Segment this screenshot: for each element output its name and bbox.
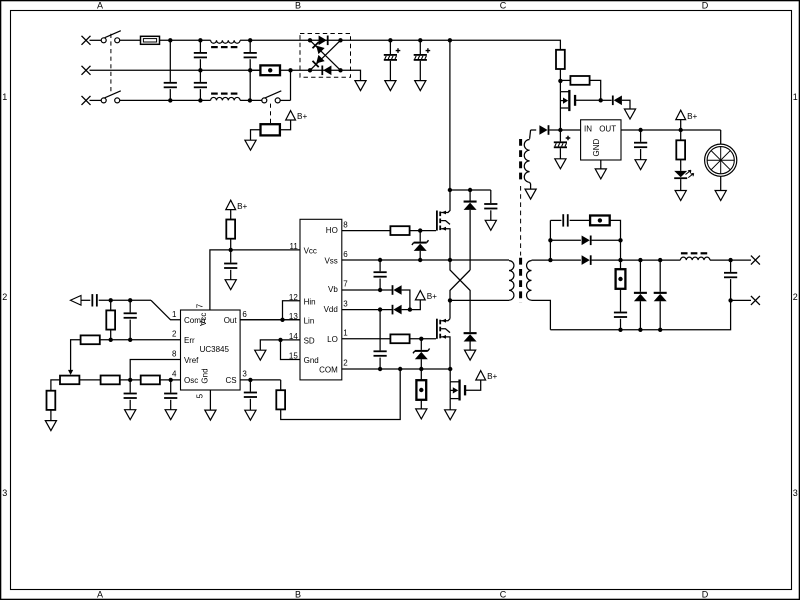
wire — [592, 239, 621, 241]
wire — [620, 319, 622, 330]
ground (C5) — [385, 81, 396, 91]
junction — [448, 188, 452, 192]
terminal X4 (out+) — [751, 256, 760, 265]
svg-text:B+: B+ — [487, 372, 497, 381]
wire — [169, 89, 171, 100]
junction — [618, 238, 622, 242]
svg-text:3: 3 — [793, 488, 798, 498]
svg-text:1: 1 — [343, 329, 348, 338]
protection MOSFET Q4 — [450, 369, 466, 401]
wire — [230, 239, 232, 250]
wire arrow to cap — [81, 299, 90, 301]
wire — [420, 339, 422, 350]
Vcc pin wire — [231, 249, 300, 251]
junction — [548, 238, 552, 242]
supply B+ (Vcc) — [226, 200, 248, 211]
svg-text:Hin: Hin — [304, 297, 316, 306]
wire switch to fuse — [120, 39, 141, 41]
wire — [379, 358, 381, 369]
bulk capacitor C6 — [414, 48, 431, 61]
ground (R7) — [416, 409, 427, 419]
junction — [169, 378, 173, 382]
ground (bridge) — [355, 81, 366, 91]
capacitor CY2 — [194, 82, 207, 88]
ground (LED) — [675, 191, 686, 201]
common-mode choke L1 winding A — [211, 40, 240, 47]
terminal X5 (out-) — [751, 296, 760, 305]
capacitor CY1 — [194, 52, 207, 58]
ground (C21) — [635, 160, 646, 170]
wire C1 to comp node — [99, 299, 151, 301]
svg-text:B+: B+ — [297, 112, 307, 121]
switch-node rail to transformer primary bottom — [450, 299, 509, 301]
svg-text:2: 2 — [793, 292, 798, 302]
svg-text:8: 8 — [172, 350, 177, 359]
svg-text:OUT: OUT — [599, 124, 616, 133]
junction — [278, 338, 282, 342]
svg-text:7: 7 — [343, 279, 348, 288]
wire — [659, 301, 661, 330]
CS sense wire — [281, 369, 401, 420]
U1 pin numbers — [172, 303, 247, 398]
MOSFET Q2 (low side) — [436, 319, 450, 369]
wire — [199, 59, 201, 82]
Out to Lin wire — [240, 319, 300, 321]
wire — [110, 300, 112, 310]
capacitor C10 — [164, 393, 177, 399]
half-bridge top rail — [450, 189, 491, 191]
wire snubber cap drop — [490, 190, 492, 203]
wire — [559, 148, 561, 159]
junction — [448, 367, 452, 371]
supply B+ (relay) — [286, 111, 308, 122]
bridge diode D3 (diagonal) — [312, 41, 325, 54]
snubber row wire — [549, 220, 551, 260]
svg-text:Vdd: Vdd — [324, 305, 338, 314]
output capacitor C14 — [724, 272, 737, 278]
svg-text:C: C — [500, 0, 507, 10]
svg-text:CS: CS — [225, 376, 236, 385]
wire fuse to choke — [160, 39, 211, 41]
wire filter to NTC — [250, 69, 260, 71]
junction — [618, 328, 622, 332]
wire coil left to ground — [251, 130, 261, 140]
svg-text:UC3845: UC3845 — [200, 345, 230, 354]
junction — [658, 328, 662, 332]
junction — [378, 367, 382, 371]
junction — [198, 38, 202, 42]
junction — [198, 68, 202, 72]
junction bridge DC+ — [338, 38, 342, 42]
wire osc cap 2 — [170, 380, 172, 393]
bridge top rail — [310, 39, 341, 41]
bridge diode D1 — [319, 36, 329, 46]
relay contact K1 — [262, 91, 282, 103]
svg-text:6: 6 — [343, 250, 348, 259]
gate zener D6 — [412, 240, 429, 251]
HO gate wire — [342, 230, 391, 232]
pot wiper arrow — [68, 370, 73, 375]
CS pin wire — [240, 379, 281, 381]
wire B+ rail — [641, 129, 721, 131]
svg-text:Out: Out — [224, 316, 238, 325]
ground (fan) — [715, 191, 726, 201]
wire riser x250 lower — [249, 70, 251, 100]
junction — [288, 68, 292, 72]
svg-text:8: 8 — [343, 220, 348, 229]
crossover wire A — [450, 260, 470, 332]
svg-text:A: A — [97, 589, 103, 599]
power LED D22 — [674, 170, 694, 179]
diode row wire — [550, 239, 581, 241]
wire — [420, 369, 422, 380]
svg-text:COM: COM — [319, 365, 338, 374]
junction bridge AC- — [308, 68, 312, 72]
svg-text:LO: LO — [327, 335, 338, 344]
bridge rectifier outline (dashed) — [300, 34, 351, 78]
supply diode D10 — [392, 305, 402, 315]
main output row wire — [550, 259, 581, 261]
wire Vcc cap — [230, 250, 232, 263]
junction — [280, 318, 284, 322]
U2 pin labels — [304, 226, 339, 374]
junction — [558, 79, 562, 83]
common-mode choke L1 winding B — [211, 94, 240, 101]
potentiometer R3 body — [60, 376, 79, 385]
bridge diagonal wire 2 — [311, 41, 340, 69]
svg-text:Vb: Vb — [328, 285, 338, 294]
wire R8 to ground — [50, 410, 52, 421]
junction — [419, 337, 423, 341]
bridge diode D4 (diagonal) — [312, 55, 325, 68]
junction — [398, 367, 402, 371]
junction — [248, 98, 252, 102]
svg-text:5: 5 — [196, 393, 205, 398]
junction — [248, 378, 252, 382]
junction — [418, 258, 422, 262]
svg-text:Lin: Lin — [304, 317, 315, 326]
wire — [620, 240, 622, 260]
wire — [610, 220, 621, 240]
pass transistor Q3 — [560, 81, 576, 130]
junction — [418, 38, 422, 42]
wire R5 to gate — [410, 230, 436, 232]
LO gate wire — [342, 338, 391, 340]
rectifier diode D12 — [582, 255, 592, 265]
MOSFET Q1 (high side) — [436, 190, 450, 260]
wire R21 to gate — [590, 80, 601, 100]
ground (C20) — [555, 159, 566, 169]
junction — [248, 68, 252, 72]
wire — [680, 130, 682, 140]
wire SD to ground — [260, 340, 280, 350]
wire aux to diode — [531, 129, 537, 131]
voltage regulator U3 — [581, 120, 621, 160]
resistor R1 — [106, 310, 115, 329]
junction bridge DC- — [338, 68, 342, 72]
svg-text:7: 7 — [196, 303, 205, 308]
wire diode drop — [469, 190, 471, 201]
secondary top wire — [532, 259, 551, 261]
zener D21 — [612, 96, 622, 106]
wire D10 to node — [402, 309, 410, 311]
resistor R9 — [101, 376, 120, 385]
junction — [618, 258, 622, 262]
ground (C11) — [245, 410, 256, 420]
junction — [128, 338, 132, 342]
junction — [229, 248, 233, 252]
resistor R10 — [141, 376, 160, 385]
ground (SD) — [255, 350, 266, 360]
ground (C7) — [485, 220, 496, 230]
wire D9 to node — [402, 290, 410, 310]
supply B+ (driver) — [415, 291, 437, 302]
relay contact link (dashed) — [270, 104, 272, 124]
junction — [419, 367, 423, 371]
wire pot left — [51, 380, 60, 391]
wire — [680, 179, 682, 190]
current shunt R7 — [416, 380, 426, 400]
wire Vdd-COM cap — [379, 310, 381, 351]
wire shunt drop — [620, 260, 622, 269]
wire node Vaux — [555, 129, 581, 131]
resistor R11 — [276, 390, 285, 409]
ground (C6) — [415, 81, 426, 91]
wire — [199, 89, 201, 100]
snubber resistor R12 — [590, 216, 610, 226]
wire riser x250 upper — [249, 40, 251, 52]
aux winding bottom wire — [530, 182, 531, 189]
wire — [249, 59, 251, 70]
freewheel diode D13 — [634, 292, 647, 301]
power switch S1 pole B — [101, 91, 121, 103]
resistor R21 — [570, 76, 589, 85]
junction — [599, 98, 603, 102]
wire — [419, 251, 421, 260]
wire — [230, 270, 232, 280]
LED resistor R22 — [676, 140, 685, 159]
svg-text:B: B — [295, 589, 301, 599]
svg-text:3: 3 — [242, 370, 247, 379]
ground (aux winding) — [525, 189, 536, 199]
wire osc cap 1 — [129, 380, 131, 393]
wire — [680, 160, 682, 171]
svg-text:Vcc: Vcc — [199, 313, 208, 326]
junction — [408, 307, 412, 311]
wire X2 to filter — [90, 69, 261, 71]
svg-text:D: D — [702, 0, 709, 10]
junction — [248, 38, 252, 42]
wire relay contact to riser — [280, 99, 290, 101]
svg-text:B: B — [295, 0, 301, 10]
ground (U1) — [205, 410, 216, 420]
crossover wire B — [450, 270, 470, 300]
svg-text:3: 3 — [2, 488, 7, 498]
wire node to B+ — [410, 300, 420, 310]
inrush NTC thermistor R0 — [260, 65, 280, 75]
wire riser contact bypass — [290, 70, 292, 100]
wire — [639, 260, 641, 292]
svg-text:6: 6 — [242, 310, 247, 319]
wire — [469, 342, 471, 351]
wire regulator out — [621, 129, 641, 131]
wire — [640, 149, 642, 160]
bridge bottom rail — [310, 69, 341, 71]
capacitor C11 (CS filter) — [244, 392, 257, 398]
svg-text:GND: GND — [592, 139, 601, 157]
svg-text:HO: HO — [326, 226, 338, 235]
svg-text:Gnd: Gnd — [304, 356, 319, 365]
svg-text:2: 2 — [172, 330, 177, 339]
capacitor C1 (feedback) — [91, 294, 97, 306]
wire pot right — [79, 379, 100, 381]
secondary bottom wire — [532, 300, 551, 329]
clamp diode D7 — [464, 332, 477, 341]
svg-text:A: A — [97, 0, 103, 10]
wire — [639, 301, 641, 330]
wire — [559, 130, 561, 141]
wire — [570, 219, 591, 221]
svg-text:B+: B+ — [687, 112, 697, 121]
svg-text:IN: IN — [584, 124, 592, 133]
snubber capacitor C7 — [484, 203, 497, 209]
svg-text:Err: Err — [184, 336, 195, 345]
junction — [128, 378, 132, 382]
wire bridge minus to ground — [341, 70, 361, 80]
svg-text:1: 1 — [172, 310, 177, 319]
wire D20 to node — [549, 129, 555, 131]
ground (relay coil) — [245, 140, 256, 150]
switch S1 gang link (dashed) — [110, 34, 112, 94]
junction — [378, 307, 382, 311]
junction — [448, 298, 452, 302]
Vb pin wire — [342, 289, 392, 291]
wire cap riser x200 upper — [199, 40, 201, 52]
junction — [728, 298, 732, 302]
wire CS to R11 — [280, 380, 282, 390]
ground (C4) — [225, 280, 236, 290]
junction — [448, 258, 452, 262]
wire R20 to node — [559, 69, 561, 81]
svg-text:SD: SD — [304, 336, 315, 345]
freewheel diode D14 — [654, 292, 667, 301]
wire bulk cap 1 drop — [389, 40, 391, 54]
wire — [490, 210, 492, 220]
capacitor C2 — [124, 312, 137, 318]
junction — [638, 258, 642, 262]
wire output cap — [730, 260, 732, 272]
svg-text:B+: B+ — [237, 202, 247, 211]
junction — [638, 328, 642, 332]
relay coil K1 — [261, 124, 280, 135]
wire R6 to gate — [410, 338, 436, 340]
junction — [198, 98, 202, 102]
rectifier diode D11 — [582, 236, 592, 246]
Osc pin wire — [160, 379, 181, 381]
svg-text:C: C — [500, 589, 507, 599]
wire — [170, 400, 172, 410]
gate zener D8 — [413, 349, 430, 360]
svg-text:Gnd: Gnd — [200, 368, 209, 383]
junction — [109, 298, 113, 302]
ground (D21) — [624, 109, 635, 119]
Vss rail to transformer primary top — [342, 259, 509, 261]
snubber capacitor C12 — [562, 214, 568, 226]
fuse F1 — [141, 36, 160, 44]
capacitor CY3 — [244, 52, 257, 58]
wire zener to ground — [622, 100, 630, 109]
gate driver IC U2 body — [300, 219, 342, 380]
aux winding top wire — [530, 130, 531, 139]
wire — [110, 330, 112, 340]
wire — [379, 279, 381, 291]
Vdd pin wire — [342, 309, 392, 311]
capacitor C4 (Vcc) — [224, 263, 237, 269]
svg-text:1: 1 — [2, 92, 7, 102]
wire choke out top — [240, 39, 310, 41]
U1 Gnd pin wire — [209, 390, 211, 410]
Err pin wire — [100, 339, 181, 341]
junction — [378, 258, 382, 262]
wire riser C2 — [129, 300, 131, 312]
bootstrap diode D9 — [392, 285, 402, 295]
power switch S1 pole A — [101, 31, 121, 43]
aux rectifier diode D20 — [539, 125, 549, 135]
bootstrap capacitor C8 — [374, 271, 387, 277]
wire switch to choke (bottom) — [120, 99, 211, 101]
wire fan top — [720, 130, 722, 144]
output inductor L2 — [680, 253, 710, 260]
wire bulk cap 2 drop — [419, 40, 421, 54]
transformer T1 primary — [509, 261, 514, 301]
terminal X1 (line in) — [82, 36, 91, 45]
wire — [129, 400, 131, 410]
svg-text:D: D — [702, 589, 709, 599]
wire — [592, 259, 681, 261]
capacitor C9 — [374, 350, 387, 356]
wire L2 to out+ — [710, 259, 751, 261]
Lin pin wire — [240, 319, 300, 321]
svg-text:B+: B+ — [427, 292, 437, 301]
junction — [728, 258, 732, 262]
wire HV to half-bridge — [449, 40, 451, 190]
aux capacitor C20 — [554, 136, 571, 149]
wire — [420, 400, 422, 409]
wire to Q2 drain — [449, 300, 451, 318]
wire — [469, 210, 471, 270]
wire Q4 source to ground — [449, 399, 451, 410]
junction — [168, 38, 172, 42]
ground (C10) — [165, 410, 176, 420]
ground (Q4) — [445, 410, 456, 420]
transformer T1 secondary — [527, 261, 532, 301]
bridge diode D2 — [321, 66, 331, 76]
junction — [418, 228, 422, 232]
output return rail — [550, 300, 730, 329]
wire out- stub — [731, 299, 751, 301]
junction — [168, 98, 172, 102]
wire B+ stub — [680, 120, 682, 130]
supply B+ (main) — [676, 110, 698, 121]
junction bridge AC+ — [308, 38, 312, 42]
terminal X2 (neutral in) — [82, 66, 91, 75]
capacitor CX1 — [164, 82, 177, 88]
wire SD to Gnd pin — [281, 340, 301, 360]
wire fan bottom — [720, 176, 722, 190]
junction — [448, 38, 452, 42]
wire Vcc to UC3845 pin7 — [210, 250, 231, 310]
svg-text:Vss: Vss — [324, 257, 337, 266]
